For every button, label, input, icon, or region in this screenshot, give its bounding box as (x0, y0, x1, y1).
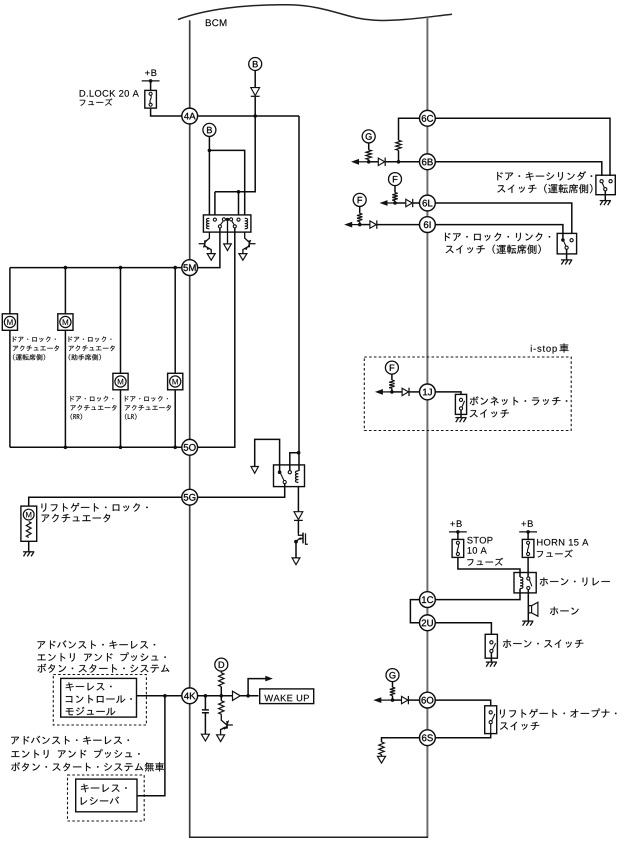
dashed box keyless control module (53, 675, 146, 726)
BCM right edge (426, 17, 428, 837)
label advanced keyless line1 (37, 640, 155, 649)
label fuse (katakana) (80, 98, 113, 105)
door lock actuator motor M1 (driver side) (9, 268, 11, 314)
+B label (STOP fuse) (450, 520, 461, 526)
wire switch to ground (604, 191, 606, 201)
connector pin 6B (420, 154, 436, 170)
BCM left edge (189, 20, 191, 837)
diode (6O) (402, 696, 408, 703)
arrow ground (capacitor) (201, 734, 209, 741)
horn relay coil (520, 577, 523, 588)
wire 4K internal (197, 695, 233, 697)
arrow ground centre (224, 244, 232, 251)
relay coil (295, 471, 298, 483)
capacitor C1 (202, 710, 209, 713)
wire 5M rail (outside) (10, 267, 183, 269)
wire to relay contact 1 (214, 192, 216, 216)
ground (horn) (522, 620, 533, 622)
label door lock link switch (445, 233, 550, 242)
junction capacitor (204, 694, 208, 698)
door lock actuator motor M3 (RR) (120, 268, 122, 374)
wire 4A to internal node (197, 115, 299, 117)
liftgate opener switch (485, 706, 497, 734)
wire switch to ground (490, 653, 492, 662)
junction on return rail (64, 446, 68, 450)
relay coil right (245, 218, 248, 229)
wire diode to relay contacts (215, 97, 255, 192)
junction receiver branch (163, 694, 167, 698)
BCM bottom edge (189, 836, 428, 838)
label HORN 15 A (537, 539, 588, 546)
door lock actuator motor M2 (passenger side) (64, 268, 66, 314)
keyless control module box (61, 678, 137, 717)
door lock link switch (driver side) (557, 233, 576, 254)
wire switch to 6S (435, 734, 491, 738)
resistor (F 1J) (389, 380, 394, 388)
relay NO contact (288, 471, 291, 474)
wire relay b2 to 5O (197, 228, 235, 447)
relay contact b2 (233, 225, 236, 228)
door key cylinder switch (driver side) (596, 175, 615, 195)
transistor Q2 (right driver) (245, 232, 250, 243)
connector pin 5G (182, 489, 198, 505)
label actuator RR (71, 396, 114, 402)
fuse STOP 10A (449, 531, 467, 533)
junction wake branch (246, 694, 250, 698)
wire B to diode (254, 70, 256, 87)
wire 6S to resistor (382, 738, 421, 742)
wire 6O to liftgate opener switch (435, 700, 491, 706)
label D.LOCK 20 A (80, 90, 139, 97)
junction (6L row) (393, 201, 397, 205)
fuse D.LOCK 20A (142, 80, 160, 82)
diode (1J) (402, 388, 408, 395)
relay moving contact (283, 481, 286, 484)
wire switch to ground (566, 249, 568, 259)
signal arrow (6L) (387, 202, 396, 204)
resistor (F 6I) (357, 213, 362, 221)
transistor Q3 (wake-up driver) (221, 714, 226, 725)
diode (6L) (406, 199, 412, 206)
wire relay common to arrow (255, 439, 280, 472)
door lock actuator motor M4 (LR) (174, 268, 176, 374)
label bonnet latch switch (470, 396, 568, 405)
junction (6I row) (358, 223, 362, 227)
dashed box keyless receiver (68, 775, 145, 821)
wire moving contact to 5G (197, 484, 285, 498)
label actuator LR (125, 396, 168, 402)
wire branch to relay coil R (209, 150, 244, 215)
arrow ground (Q3) (217, 735, 225, 742)
wire to diode (369, 161, 379, 163)
arrow (wake signal) (265, 676, 273, 682)
relay contact c4 (237, 218, 240, 221)
horn relay (514, 573, 536, 593)
connector pin 1C (420, 592, 436, 608)
junction B2 branch (208, 149, 212, 153)
junction on coil feed (297, 451, 301, 455)
wire G to resistor (368, 143, 370, 150)
relay common bar and junction (226, 218, 230, 220)
diode below B (251, 88, 260, 96)
wire 6I to link switch (435, 225, 563, 239)
resistor (D upper) (219, 673, 224, 687)
ground (horn switch) (486, 661, 497, 663)
relay contact b1 (218, 225, 221, 228)
wire capacitor to arrow ground (204, 713, 206, 735)
label liftgate opener switch (500, 708, 616, 717)
wire driver to arrow ground (295, 542, 297, 558)
node F (6I) (353, 193, 366, 206)
resistor (G 6O) (390, 687, 395, 695)
wire fuse to 4A (151, 108, 183, 116)
horn (speaker symbol) (529, 606, 532, 613)
relay levers (220, 221, 223, 225)
+B label (D.LOCK fuse) (145, 70, 156, 76)
label horn relay (540, 577, 610, 586)
label STOP (467, 537, 492, 544)
resistor (6S) (379, 742, 384, 755)
keyless receiver box (76, 779, 137, 812)
wire actuator to ground (28, 541, 30, 551)
node B (top) (249, 58, 262, 71)
node B (second) (203, 123, 216, 136)
junction (6O row) (391, 698, 395, 702)
wire switch to ground (460, 410, 462, 417)
node G (6O) (386, 669, 399, 682)
wire wake arrow (248, 679, 266, 696)
connector pin 6S (420, 730, 436, 746)
wire diode to 6B (386, 161, 421, 163)
bonnet latch switch (455, 394, 466, 414)
long wire 4A to liftgate relay coil (298, 116, 300, 471)
ground (link sw) (561, 259, 572, 261)
wire coil to 1C (435, 589, 520, 600)
relay contact c2 (222, 218, 225, 221)
label horn switch (503, 639, 583, 647)
wire STOP fuse to relay coil (458, 557, 520, 577)
wire hook to NO contact (290, 453, 299, 471)
connector pin 6L (420, 195, 436, 211)
node F (6L) (389, 173, 402, 186)
diode (6I) (370, 221, 376, 228)
junction on 5M rail (64, 266, 68, 270)
signal arrow (6O) (380, 699, 392, 701)
wire receiver to junction (137, 696, 165, 796)
wire 5G to liftgate actuator (29, 497, 183, 506)
wire B2 to relay coil L (208, 136, 210, 215)
junction D-divider (220, 694, 224, 698)
relay contact c3 (230, 218, 233, 221)
wire module to 4K (137, 695, 183, 697)
WAKE UP box (260, 689, 314, 704)
signal arrow (1J) (382, 391, 392, 393)
junction on return rail (119, 446, 123, 450)
+B label (HORN fuse) (521, 520, 532, 526)
wire relay b1 to 5M (197, 228, 220, 268)
wire diode to driver (297, 521, 299, 533)
label key cylinder switch (497, 171, 592, 180)
transistor Q1 (left driver) (204, 232, 209, 243)
wire 5O return rail (10, 446, 183, 448)
wire relay contact to horn/ground (527, 590, 529, 621)
label horn (550, 607, 579, 615)
label WAKE UP (264, 695, 309, 702)
horn switch (485, 634, 497, 658)
relay common contact (278, 470, 282, 474)
wire coil to diode (297, 487, 299, 512)
signal arrow (6B) (358, 161, 369, 163)
node D (215, 658, 228, 671)
wire 2U to horn switch (435, 623, 492, 635)
signal arrow (6I) (351, 224, 360, 226)
junction on 4A line (253, 114, 257, 118)
connector pin 4A (182, 108, 198, 124)
resistor (6C pull) (396, 140, 401, 150)
connector pin 6O (420, 692, 436, 708)
connector pin 6C (420, 110, 436, 126)
label actuator 2 line1 (69, 336, 112, 342)
connector pin 4K (182, 688, 198, 704)
label keyless receiver (81, 784, 127, 793)
connector pin 5M (182, 260, 198, 276)
junction to relay contact 2 (237, 190, 241, 194)
label liftgate lock actuator (42, 503, 148, 512)
resistor (D lower) (219, 701, 224, 715)
connector pin 1J (420, 384, 436, 400)
liftgate lock actuator (motor with resistor) (21, 506, 37, 541)
label actuator 1 line1 (13, 336, 56, 342)
node F (1J) (385, 361, 398, 374)
wire buffer to WAKE UP (240, 695, 258, 697)
wire resistor to 6B line (398, 150, 400, 162)
label keyless-less line1 (11, 736, 129, 745)
i-stop dashed box (364, 357, 571, 431)
junction on 5M rail (173, 266, 177, 270)
ground (liftgate actuator) (23, 551, 34, 553)
BCM label (206, 19, 227, 26)
wire 1C loop to 2U (410, 600, 420, 623)
arrow ground (6S) (378, 756, 386, 763)
label keyless control module (66, 682, 112, 691)
junction (1J row) (390, 390, 394, 394)
BCM module boundary (torn top edge) (178, 5, 452, 21)
ground (key cylinder sw) (600, 200, 611, 202)
resistor (F 6L) (392, 193, 397, 201)
wire 6C internal (399, 118, 421, 140)
relay coil left (206, 218, 209, 229)
relay contact c1 (213, 218, 216, 221)
label i-stop (531, 345, 557, 354)
connector pin 2U (420, 615, 436, 631)
MOSFET driver (298, 533, 303, 535)
arrow ground (251, 467, 258, 474)
junction (6B row) (367, 160, 371, 164)
diode (6B) (378, 158, 384, 165)
junction on 5M rail (119, 266, 123, 270)
wire 6L to link switch (435, 203, 572, 233)
wire 6C to key cylinder switch (435, 118, 610, 176)
diode (coil driver) (294, 512, 303, 520)
fuse HORN 15A (519, 531, 537, 533)
connector pin 5O (182, 439, 198, 455)
relay centre tap down (227, 219, 229, 244)
wire 6B to key cylinder switch (435, 162, 602, 176)
node G (362, 130, 375, 143)
resistor (G) (366, 150, 371, 160)
wire 1J to bonnet switch (435, 392, 461, 395)
connector pin 6I (420, 217, 436, 233)
wire branch to relay contact (238, 192, 240, 216)
wire HORN fuse to relay contact (527, 557, 529, 576)
door lock relay (in BCM) (203, 215, 251, 232)
ground (bonnet latch sw) (455, 417, 466, 419)
liftgate release relay (274, 465, 305, 487)
arrow ground (driver) (292, 558, 300, 565)
buffer amp (233, 691, 241, 700)
junction on return rail (173, 446, 177, 450)
junction resistor/6B (397, 160, 401, 164)
wire to capacitor (204, 696, 206, 710)
